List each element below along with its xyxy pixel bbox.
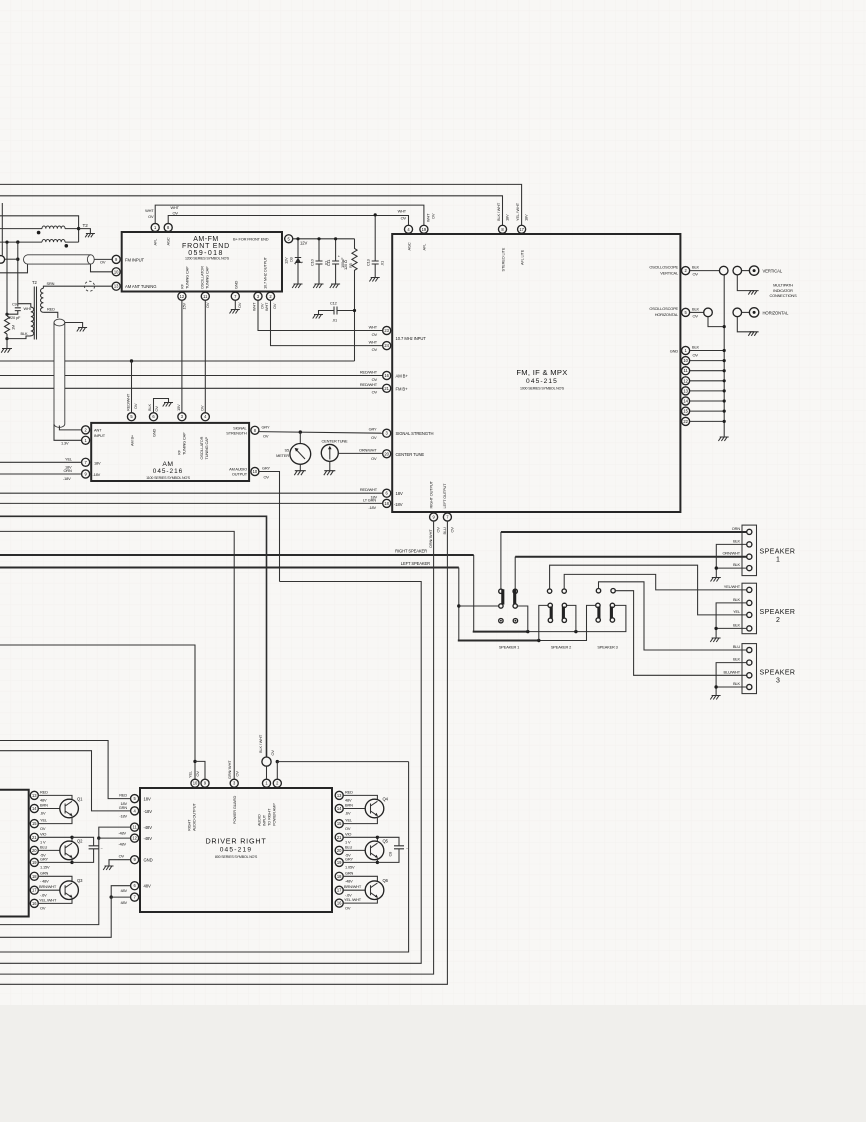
wire: BLK sp1 [716,544,746,568]
wire: Q2 emitter to pin 19 [38,858,72,862]
svg-text:GRY: GRY [262,424,270,429]
connector plug on pin 1 [262,757,271,766]
svg-text:120 Ω: 120 Ω [343,260,348,270]
wire: coax center bottom to AM pin 2 [59,426,81,430]
svg-text:AUDIO OUTPUT: AUDIO OUTPUT [192,803,197,831]
svg-text:FM, IF & MPX: FM, IF & MPX [516,368,567,377]
pin 9 (FM INPUT) [112,255,120,263]
pin 9 driver [201,779,209,787]
svg-text:18V: 18V [94,460,101,465]
svg-text:-48V: -48V [144,825,153,830]
svg-text:GRY: GRY [369,426,377,431]
ground speaker1 [711,578,721,582]
pin 12 FM box [682,377,690,385]
svg-text:18V: 18V [524,214,529,221]
svg-text:AM B+: AM B+ [396,374,409,379]
svg-text:AGC: AGC [166,237,171,245]
block: AM box [91,423,249,481]
transformer T2 AM antenna: primary winding [31,307,34,336]
svg-text:WHT: WHT [369,339,378,344]
wire: R bottom to ground [6,334,8,349]
pin 19 driver left [30,858,38,866]
svg-text:OV: OV [693,272,699,277]
wire: pin10/pin9 loop [195,761,205,779]
transistor Q3 [60,881,79,900]
svg-text:Q5: Q5 [383,838,389,843]
svg-text:TUNING CAP: TUNING CAP [184,266,189,289]
svg-text:800 SERIES SYMBOL NO'S: 800 SERIES SYMBOL NO'S [215,855,258,859]
pin 8 (STEREO LITE) FM box [498,225,506,233]
node BLK common sp1 [715,566,718,569]
svg-text:INPUT: INPUT [94,433,106,438]
pin 21 driver right [335,833,343,841]
svg-text:19: 19 [337,860,342,865]
wire: horizontal row to ground bus [708,317,724,327]
svg-text:CONNECTIONS: CONNECTIONS [769,293,797,298]
node -48V tee [97,836,100,839]
control CENTER TUNE [321,444,338,461]
terminal BLK sp2 [747,600,752,605]
node: antenna junction on lower coil line [16,240,19,243]
svg-text:18V: 18V [144,797,151,802]
svg-text:DRIVER RIGHT: DRIVER RIGHT [205,837,266,846]
block: FM IF & MPX box [392,234,680,512]
pin 18 FM box [383,499,391,507]
svg-text:YEL: YEL [345,818,353,823]
svg-text:16: 16 [384,373,389,378]
node Q5 collector / C8 [376,836,379,839]
svg-text:RED: RED [47,306,55,311]
svg-text:C12: C12 [330,301,337,306]
wire: pin 6 stub to ground [154,399,169,413]
svg-text:B+ FOR FRONT END: B+ FOR FRONT END [233,237,269,242]
wire: -18V line to pin 18 [0,502,383,504]
wire: Q5 collector [343,837,377,841]
pin 12 (RF TUNING CAP) [178,292,186,300]
svg-text:BRN: BRN [40,803,48,808]
svg-text:1000 SERIES SYMBOL NO'S: 1000 SERIES SYMBOL NO'S [520,386,565,390]
svg-text:17: 17 [337,888,342,893]
svg-text:BLK / WHT: BLK / WHT [496,202,501,221]
svg-text:AM: AM [162,461,173,468]
svg-text:-18V: -18V [63,476,71,481]
svg-text:OV: OV [154,406,159,412]
wire: Q5 base [343,849,365,851]
svg-text:OV: OV [371,435,377,440]
svg-text:OV: OV [372,377,378,382]
svg-text:C13: C13 [366,259,371,266]
wire: audio input feed (thick) to driver pin 1 [0,516,267,757]
wire: meter tap down [299,432,301,443]
svg-text:045-219: 045-219 [220,847,253,854]
wire: upper antenna coil feed [0,228,42,230]
wire: -48V feed line [0,838,131,925]
wire: Q1 collector [38,795,72,799]
svg-text:16: 16 [32,901,37,906]
svg-text:17: 17 [519,227,524,232]
wire: pin 14 to bus [690,400,725,402]
pin 7 AM (18V) [82,458,90,466]
wire: AM B+ bus from R5 [0,360,355,362]
svg-text:FM INPUT: FM INPUT [125,257,145,262]
svg-text:10.7 MHz INPUT: 10.7 MHz INPUT [396,336,427,341]
node pin 2 tee [276,760,279,763]
svg-text:AFL: AFL [422,243,427,251]
resistor 1M [5,316,10,334]
wire: Q6 collector [343,876,377,881]
svg-text:19: 19 [422,227,427,232]
terminal BLU/WHT sp3 [747,673,752,678]
wire: secondary bottom RED to vertical coax top [43,312,57,318]
connector pair on horizontal row [704,308,713,317]
node: R top / C9 bottom [5,313,8,316]
node C12 on R5 leg [353,309,356,312]
svg-text:WHT: WHT [369,324,378,329]
svg-text:24: 24 [384,343,389,348]
svg-text:BLK / WHT: BLK / WHT [258,734,263,753]
wire: pin 1 AFL up and right to FM pin 19 [155,205,424,225]
wire: Q3 collector [38,876,72,881]
svg-text:045-215: 045-215 [526,378,558,385]
svg-text:BLK: BLK [147,404,152,411]
wire: Q4 collector [343,795,377,799]
svg-text:20: 20 [384,451,389,456]
pin 21 FM box [383,384,391,392]
node: sw2 right blade tap [574,630,577,633]
ground T2 [85,234,95,238]
svg-text:C11: C11 [326,260,331,266]
svg-text:3: 3 [776,678,780,685]
svg-text:BRN/WHT: BRN/WHT [39,884,57,889]
terminal BLK sp1 [747,542,752,547]
svg-text:BLK: BLK [692,306,699,311]
svg-text:FRONT END: FRONT END [182,243,230,250]
pin 2 (10.7 MHz OUTPUT) [266,292,274,300]
svg-text:OV: OV [270,750,275,756]
pin 7 driver (48V) [131,893,139,901]
wire: pin 5 to horizontal jack row [690,311,704,313]
svg-text:GRY: GRY [345,856,353,861]
wire: AM B+ down to pin 5 [131,361,133,413]
pin 18 driver right [335,872,343,880]
node BLK common sp2 [714,627,717,630]
wire: lower antenna coil feed [0,241,42,243]
node: sw2 left blade tap [537,639,540,642]
wire: pin 1 GND to bus [690,350,725,352]
svg-text:BLU: BLU [733,644,740,649]
terminal BLK2 sp1 [747,566,752,571]
pin 4 AM (OSC TUNING CAP) [201,413,209,421]
svg-text:WHT: WHT [251,302,256,311]
wire: 12V rail from pin 5 [293,238,355,240]
svg-text:LEFT SPEAKER: LEFT SPEAKER [401,561,430,566]
svg-text:48V: 48V [121,888,128,893]
node 48V tee [110,895,113,898]
wire: FM coax center to pin 9 [94,258,111,260]
node: left speaker to sw1 blade [457,604,460,607]
pin 3 driver (POWER GUARD) [230,779,238,787]
svg-text:WHT: WHT [264,302,269,311]
wire: BLK2 sp2 to ground [716,628,747,638]
wire: 18V line to FM pin 16 [0,375,383,377]
svg-text:SRN: SRN [47,281,55,286]
svg-text:OV: OV [199,405,204,411]
svg-text:OV: OV [234,771,239,777]
svg-text:GRN: GRN [40,870,49,875]
node Q2 collector / C7 [70,836,73,839]
svg-text:HORIZONTAL: HORIZONTAL [655,312,679,317]
pin 20 driver right [335,846,343,854]
svg-text:SPEAKER 1: SPEAKER 1 [499,645,519,650]
svg-text:AM B+: AM B+ [130,434,135,446]
ground C11 [330,284,340,288]
pin 15 FM box [682,407,690,415]
wire: BLK2 sp1 to ground [716,568,746,577]
svg-text:AFL: AFL [153,238,158,246]
svg-text:11: 11 [683,368,688,373]
pin 3 AM (RF TUNING CAP) [178,413,186,421]
svg-text:21: 21 [337,835,342,840]
svg-text:C10: C10 [309,258,314,266]
svg-text:YEL./WHT: YEL./WHT [39,897,57,902]
pin 14 driver right [335,804,343,812]
svg-text:.6V: .6V [345,811,351,816]
ground driver [103,866,113,870]
pin 9 (RIGHT OUTPUT) FM box [430,513,438,521]
svg-text:1200 SERIES SYMBOL NO'S: 1200 SERIES SYMBOL NO'S [185,257,230,261]
svg-text:-18V: -18V [144,809,153,814]
wire: GND pin stub [109,860,131,866]
resistor R5 120ohm [352,239,357,361]
pin 5 (B+) front end [285,235,293,243]
svg-text:12: 12 [132,836,137,841]
node C11 on rail [334,237,337,240]
svg-text:VERTICAL: VERTICAL [660,270,679,275]
svg-text:18: 18 [337,874,342,879]
svg-text:GRN/ WHT: GRN/ WHT [227,760,232,779]
wire: Q2 collector [38,837,72,841]
pin 10 FM box [682,357,690,365]
svg-text:Q3: Q3 [77,878,83,883]
svg-text:OV: OV [40,906,46,911]
node pin10 loop [193,760,196,763]
wire: ORN line sw1 to speaker1 (thick) [500,532,502,589]
svg-text:14: 14 [32,806,37,811]
svg-text:2: 2 [776,617,780,624]
svg-text:48V: 48V [144,884,151,889]
wire: Q1 emitter to pin 15 [38,816,72,823]
node: sw1 right blade tap [526,630,529,633]
svg-text:1: 1 [776,557,780,564]
wire: plug to pin 1 [266,766,268,779]
ground meter [294,471,306,476]
block: AM-FM FRONT END box [122,232,282,292]
svg-text:SPEAKER: SPEAKER [760,670,796,677]
svg-text:10: 10 [114,269,119,274]
svg-text:12V: 12V [300,241,307,246]
svg-text:OV: OV [148,214,154,219]
meter S5 [290,444,311,465]
ground AM pin 6 [163,403,173,407]
wire: center tune to FM pin 20 [338,452,383,454]
cable clamp (dashed circle) on ant tuning line [85,281,95,291]
svg-text:RED: RED [345,789,353,794]
svg-text:SIGNAL STRENGTH: SIGNAL STRENGTH [396,431,434,436]
svg-text:RED/WHT: RED/WHT [360,487,378,492]
wire: Q5 emitter to pin 19 [343,858,377,862]
wire: sw2 left blade feed [539,605,548,640]
wire: vertical jack sleeve to ground [737,275,754,291]
capacitor C8 [377,837,404,862]
capacitor C10 [316,239,323,284]
connector block SPEAKER 1 [742,525,757,576]
svg-text:RIGHT SPEAKER: RIGHT SPEAKER [395,549,427,554]
svg-text:BRN: BRN [345,803,353,808]
wire: 48V feed line [0,897,131,937]
wire: Q3 base [38,889,60,891]
svg-text:12V: 12V [283,257,288,264]
svg-text:ORN/ WHT: ORN/ WHT [428,529,433,548]
ground C10 [313,284,323,288]
svg-text:OV: OV [119,854,125,859]
pin 11 driver (-48V) [131,823,139,831]
svg-text:BLK: BLK [733,657,740,662]
wire: GRN -18V feed to pin 4 [0,751,131,811]
wire: audio line y952 from pin2 tee [0,762,409,952]
pin 5 (OSCILLOSCOPE HORIZONTAL) FM box [682,308,690,316]
pin 7 (LEFT OUTPUT) FM box [443,513,451,521]
ground speaker2 [710,638,720,642]
coax cable FM antenna (horizontal cylinder) [23,255,94,264]
svg-text:BLU: BLU [442,527,447,534]
svg-text:BLK: BLK [692,265,699,270]
wire: pin 2 to vertical jack row [690,270,720,272]
svg-text:Q6: Q6 [383,878,389,883]
svg-text:OV: OV [345,826,351,831]
svg-text:-48V: -48V [118,842,126,847]
capacitor C12 [319,307,355,315]
svg-text:OUTPUT: OUTPUT [232,472,248,477]
pin 9 driver (GND) [131,856,139,864]
svg-text:FM B+: FM B+ [396,386,409,391]
svg-text:15: 15 [337,821,342,826]
svg-text:-18V: -18V [394,502,403,507]
svg-text:220 pF: 220 pF [9,315,21,320]
terminal ORN sp1 [747,529,752,534]
svg-text:YEL: YEL [188,770,193,778]
svg-text:1100 SERIES SYMBOL NO'S: 1100 SERIES SYMBOL NO'S [146,476,191,480]
svg-text:SPEAKER: SPEAKER [760,609,796,616]
svg-text:.6V: .6V [40,811,46,816]
wire: AM audio to right power amp input (corner run) [0,582,421,964]
pin 4 driver (-18V) [131,807,139,815]
svg-text:13: 13 [683,388,688,393]
ground bus [718,437,728,441]
wire: Q3 emitter to pin 16 [38,898,72,904]
svg-text:21: 21 [384,386,389,391]
svg-text:LEFT OUTPUT: LEFT OUTPUT [442,483,447,509]
svg-text:LT GRN: LT GRN [363,498,376,503]
svg-text:20: 20 [337,848,342,853]
pin 10 driver (RIGHT AUDIO OUTPUT) [191,779,199,787]
wire: antenna feed to T2 top [0,216,79,242]
pin 1 driver (AUDIO INPUT) [262,779,270,787]
svg-text:15: 15 [32,821,37,826]
terminal BLK sp3 [747,660,752,665]
pin 7 (GND) front end [231,292,239,300]
switch SPEAKER 2 [547,589,566,623]
svg-text:SPEAKER: SPEAKER [760,549,796,556]
wire: primary return vertical [6,242,8,316]
svg-text:17: 17 [32,888,37,893]
svg-text:RED/WHT: RED/WHT [125,393,130,411]
svg-text:TUNING CAP: TUNING CAP [204,266,209,289]
wire: 48V to pin 6 [111,886,131,897]
capacitor C9 [7,308,21,314]
wire: -18V feed to AM pin 9 [0,473,82,475]
svg-text:18V: 18V [504,214,509,221]
transistor Q5 [365,841,384,860]
svg-text:GRY: GRY [262,466,270,471]
svg-text:R5: R5 [348,263,353,268]
pin 6 driver (48V) [131,882,139,890]
ground D3 [292,284,302,288]
svg-text:C8: C8 [388,852,393,857]
pin 2 AM (ANT INPUT) [82,426,90,434]
svg-text:BRN/WHT: BRN/WHT [344,884,362,889]
jack HORIZONTAL [749,308,758,317]
svg-text:1.3V: 1.3V [61,441,69,446]
wire: pin 3 to FM pin 23 (10.7 MHz) [258,300,383,330]
wire: sw3 right contact to BLU/WHT [615,591,746,676]
wire: 18V feed to AM pin 7 [0,461,82,463]
pin 19 (AFL) FM box [420,225,428,233]
pin 17 (AFL LITE) FM box [518,225,526,233]
svg-text:OSCILLOSCOPE: OSCILLOSCOPE [649,306,678,311]
node C13 on AGC line [374,213,377,216]
pin 1 AM [82,436,90,444]
wire: sw1 right blade bottom tap [517,606,527,632]
svg-text:VERTICAL: VERTICAL [763,269,783,274]
pin 13 (AM ANT TUNING) [112,282,120,290]
svg-text:11: 11 [132,825,137,830]
pin 16 driver right [335,899,343,907]
wire: ground pin 7 stub [234,300,236,309]
pin 22 FM box [682,417,690,425]
node bus top [723,325,726,328]
pin 2 driver [273,779,281,787]
svg-text:RED: RED [40,789,48,794]
svg-text:GRY: GRY [40,856,48,861]
svg-text:BLU: BLU [345,844,352,849]
wire: STEREO LITE line to FM pin 8 [0,196,503,226]
wire: pin 11 to bus [690,370,725,372]
svg-text:OV: OV [401,215,407,220]
svg-text:ORN/WHT: ORN/WHT [359,447,377,452]
wire: BLK sp2 [716,603,747,629]
wire: Q4 base [343,808,365,810]
svg-text:C9: C9 [12,302,17,307]
svg-text:AM ANT TUNING: AM ANT TUNING [125,284,156,289]
wire: 18V line to pin 6 [0,492,383,494]
wire: ORN/WHT line sw1 to speaker1 (thick) [514,557,516,589]
wire: antenna vertical down to C9 [17,242,19,306]
pin 3 (10.7 MHz OUTPUT) [254,292,262,300]
svg-text:16: 16 [337,901,342,906]
svg-text:- 48V: - 48V [40,879,49,884]
ground C13 [369,278,379,282]
svg-text:YEL/WHT: YEL/WHT [724,584,741,589]
